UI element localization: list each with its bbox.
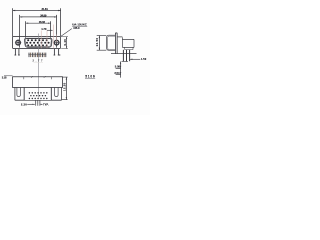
svg-text:12.50: 12.50 [95,38,99,47]
svg-text:TYP.: TYP. [43,102,49,106]
svg-text:5.08: 5.08 [115,65,121,69]
svg-text:2.30: 2.30 [21,102,27,106]
svg-text:31.81: 31.81 [42,7,49,11]
svg-text:1.70: 1.70 [41,27,47,31]
svg-text:3.18: 3.18 [2,75,7,79]
svg-text:3 PLC: 3 PLC [73,26,80,30]
svg-text:9.40: 9.40 [63,39,67,46]
svg-text:24.99: 24.99 [40,14,47,18]
svg-text:2.54: 2.54 [114,71,120,75]
svg-text:12.55: 12.55 [62,82,66,91]
svg-text:5106: 5106 [85,75,95,79]
svg-text:1.50: 1.50 [141,57,147,61]
svg-text:16.33: 16.33 [39,20,46,24]
